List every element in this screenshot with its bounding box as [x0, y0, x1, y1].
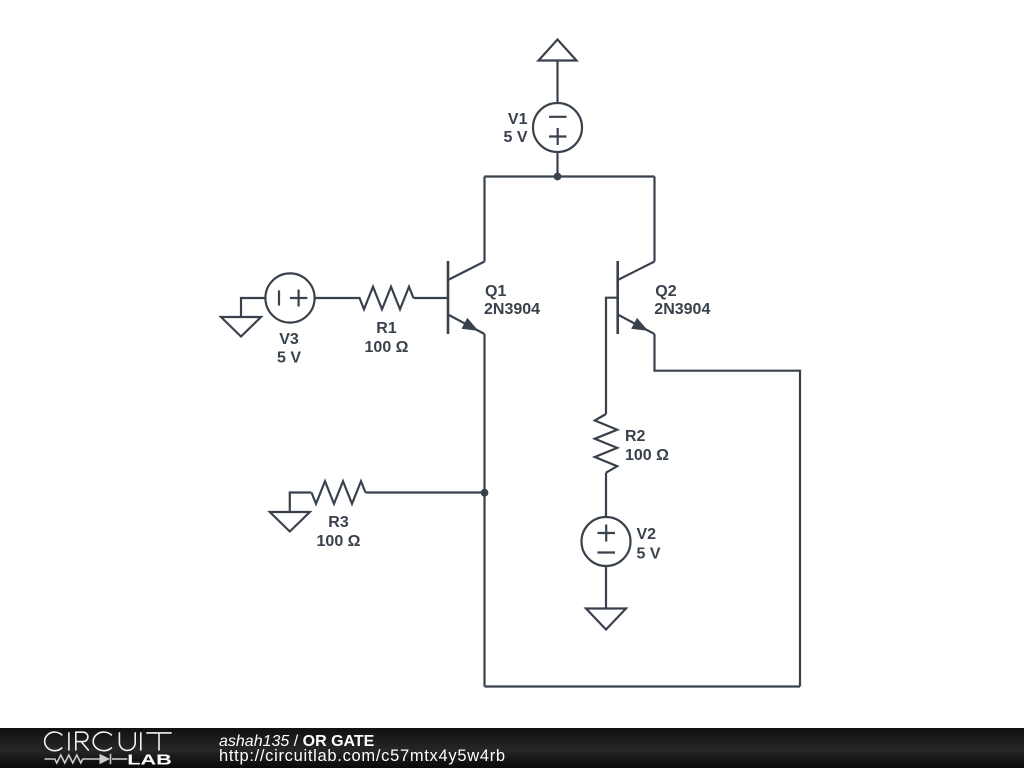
wire Q1 collector drop: [483, 177, 485, 262]
wire VCC to V1: [556, 61, 558, 104]
transistor Q2: [618, 261, 655, 334]
svg-text:2N3904: 2N3904: [654, 301, 710, 318]
svg-text:100 Ω: 100 Ω: [317, 533, 361, 550]
label V3: [277, 331, 301, 367]
wire V1 to top rail: [556, 152, 558, 177]
label V2: [637, 526, 661, 563]
svg-text:2N3904: 2N3904: [484, 301, 540, 318]
svg-text:V3: V3: [279, 331, 299, 348]
voltage source V1: [533, 103, 582, 152]
svg-text:R2: R2: [625, 428, 646, 445]
label Q2: [654, 283, 710, 318]
power VCC arrow: [539, 40, 577, 61]
ground V2: [586, 609, 626, 630]
svg-text:Q1: Q1: [485, 283, 506, 300]
wire Q2 collector drop: [653, 177, 655, 262]
label R1: [365, 320, 409, 356]
svg-text:Q2: Q2: [655, 283, 676, 300]
wire Q1 emitter vertical: [483, 334, 485, 687]
resistor R2: [595, 414, 617, 473]
wire R3 to node: [366, 491, 485, 493]
ground R3: [270, 512, 310, 532]
node top rail junction: [554, 173, 562, 181]
wire R1 to Q1 base: [414, 297, 449, 299]
voltage source V2: [582, 517, 631, 566]
wire R2 to V2: [605, 473, 607, 517]
label R3: [317, 514, 361, 550]
wire Q2 emitter to right rail: [655, 334, 801, 687]
label V1: [503, 111, 527, 146]
svg-text:R1: R1: [376, 320, 397, 337]
logo CircuitLab: [0, 728, 190, 768]
wire V2 to ground: [605, 566, 607, 609]
resistor R1: [315, 287, 414, 310]
wire top rail: [485, 175, 655, 177]
node R3 junction: [481, 489, 489, 497]
resistor R3: [312, 481, 366, 504]
wire Q2 base elbow: [606, 298, 618, 414]
svg-text:V1: V1: [508, 111, 528, 128]
svg-text:LAB: LAB: [127, 752, 172, 768]
svg-text:5 V: 5 V: [503, 129, 527, 146]
svg-text:V2: V2: [637, 526, 657, 543]
transistor Q1: [448, 261, 485, 334]
label R2: [625, 428, 669, 464]
wire bottom rail: [485, 685, 801, 687]
svg-text:100 Ω: 100 Ω: [365, 339, 409, 356]
wire R3 ground elbow: [290, 493, 312, 513]
svg-text:5 V: 5 V: [637, 546, 661, 563]
voltage source V3: [265, 273, 314, 322]
svg-text:5 V: 5 V: [277, 350, 301, 367]
label Q1: [484, 283, 540, 318]
wire V3 to ground: [241, 298, 265, 317]
svg-text:100 Ω: 100 Ω: [625, 447, 669, 464]
footer bar: [0, 728, 1024, 768]
ground V3: [221, 317, 261, 337]
svg-text:R3: R3: [328, 514, 349, 531]
